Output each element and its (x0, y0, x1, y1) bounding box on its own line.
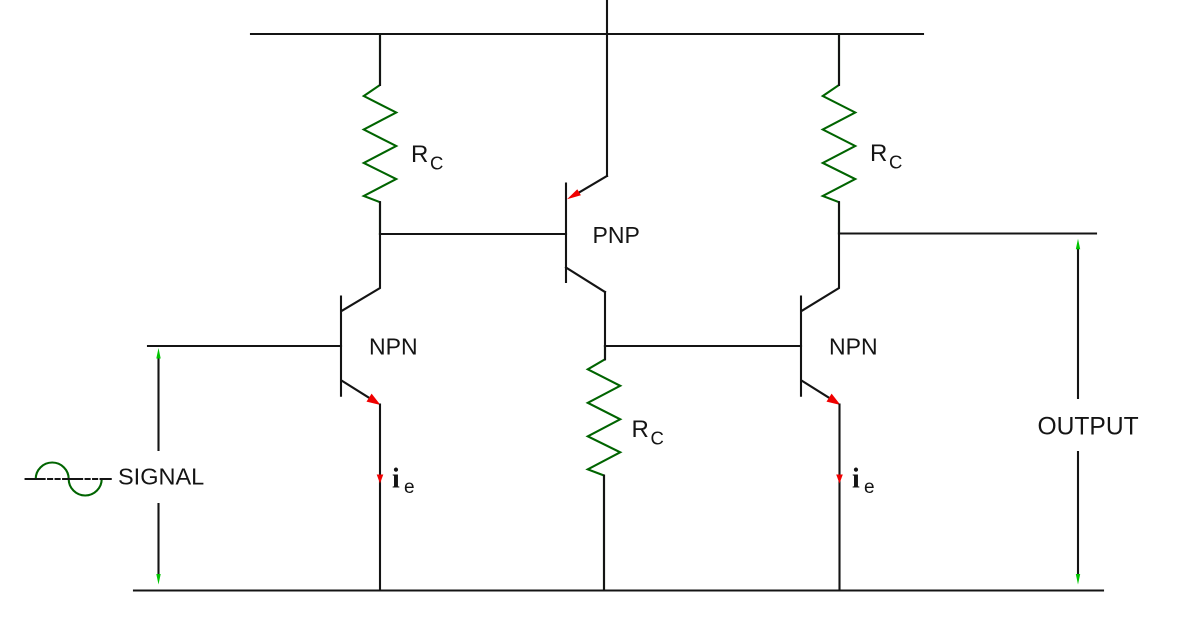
svg-text:R: R (411, 141, 428, 168)
transistor Q2 PNP (566, 176, 607, 292)
svg-text:R: R (632, 416, 649, 443)
wire node B to Q3 base (605, 345, 801, 347)
svg-text:C: C (889, 152, 902, 173)
svg-text:NPN: NPN (829, 334, 878, 360)
signal source axis dash-dot line (26, 478, 111, 480)
resistor R2 (middle R_C) (588, 346, 620, 591)
svg-text:R: R (870, 140, 887, 167)
signal source sine symbol (36, 463, 102, 496)
red arrow current ie right (836, 475, 843, 484)
wire supply entry drop (606, 0, 608, 176)
measure line right output span (1076, 239, 1080, 585)
wire output node to right edge (839, 232, 1096, 234)
transistor Q3 NPN right (801, 234, 841, 406)
svg-text:C: C (430, 153, 443, 174)
wire PNP collector drop to node B (604, 292, 606, 346)
svg-text:i: i (392, 464, 400, 495)
transistor Q1 NPN left (341, 234, 381, 405)
wire top supply rail (251, 33, 923, 35)
svg-text:C: C (651, 428, 664, 449)
svg-text:OUTPUT: OUTPUT (1038, 414, 1139, 441)
wire Q1 base lead (148, 345, 341, 347)
wire Q1 emitter to ground rail (379, 405, 381, 591)
svg-text:SIGNAL: SIGNAL (118, 463, 204, 489)
svg-text:e: e (404, 477, 415, 498)
svg-text:e: e (864, 477, 875, 498)
measure line left input span (156, 348, 160, 585)
svg-text:PNP: PNP (593, 222, 640, 248)
red arrow current ie left (377, 475, 384, 484)
svg-text:NPN: NPN (369, 334, 418, 360)
resistor R1 (left R_C) (364, 34, 396, 234)
svg-text:i: i (852, 464, 860, 495)
resistor R3 (right R_C) (823, 34, 855, 234)
wire node A to PNP base (Q2) (380, 233, 566, 235)
wire Q3 emitter to ground rail (838, 405, 840, 591)
wire bottom ground rail (134, 589, 1103, 591)
